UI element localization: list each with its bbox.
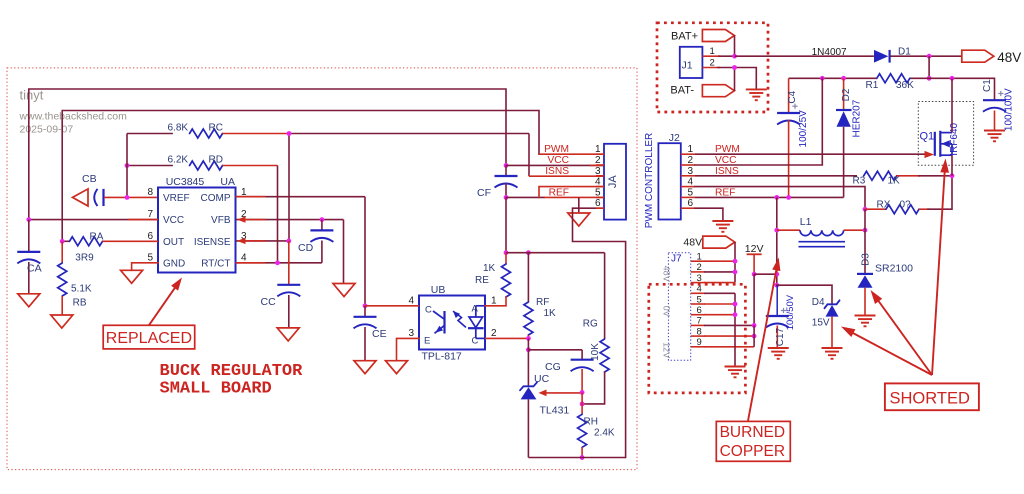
resistor RB 5.1K [61, 241, 63, 263]
svg-text:7: 7 [147, 209, 153, 220]
svg-text:C1: C1 [982, 79, 993, 92]
svg-text:RG: RG [583, 319, 598, 330]
wire 12V to J7 [753, 274, 755, 325]
node RX left junction [863, 207, 868, 212]
svg-text:2: 2 [688, 155, 694, 166]
svg-text:3: 3 [408, 328, 414, 339]
UB light arrow [454, 312, 466, 328]
optocoupler UB TPL-817 [419, 296, 485, 350]
wire JA pin4 to REF [539, 187, 604, 198]
diode D1 1N4007 [874, 50, 888, 63]
diode D2 HER207 [843, 78, 845, 110]
svg-text:15V: 15V [812, 318, 830, 329]
ground J1 [746, 88, 767, 90]
wire RX to L1/D3 [864, 209, 866, 230]
wire J1 pin1 [702, 55, 720, 57]
wire JA pin6 path [573, 208, 626, 457]
wire 48V to rail [928, 56, 930, 78]
wire RC to JA ISNS [289, 133, 529, 135]
wire PWM to Q1 gate [695, 153, 925, 155]
node J1 pin2 junction [732, 65, 737, 70]
capacitor C4 100/25V [788, 78, 790, 113]
node RG-RH junction [580, 402, 585, 407]
svg-text:REPLACED: REPLACED [106, 330, 192, 347]
node 12V junction [752, 272, 757, 277]
svg-text:VREF: VREF [163, 193, 190, 204]
wire 12V to pin9 [753, 325, 755, 346]
node 12V-net junction [774, 272, 779, 277]
UB transistor side [433, 311, 444, 319]
svg-text:5: 5 [688, 187, 694, 198]
zener diode D4 15V [825, 300, 840, 308]
wire Q1 drain to rail [951, 78, 953, 132]
svg-text:VFB: VFB [211, 215, 231, 226]
svg-text:4: 4 [241, 252, 247, 263]
svg-text:3R9: 3R9 [75, 253, 94, 264]
node J7 pin2 junction [733, 270, 738, 275]
svg-text:1N4007: 1N4007 [812, 47, 847, 58]
wire 48V flag to J7 pins [734, 242, 736, 283]
wire feedback rail [506, 252, 605, 254]
wire 12V row [754, 273, 777, 275]
svg-text:RX: RX [877, 200, 891, 211]
resistor RF 1K [527, 253, 529, 302]
wire UB pin3 to ground [397, 338, 420, 360]
annotation SHORTED arrow to D3 [879, 301, 933, 375]
transistor Q1 IRF640 dotted box [918, 102, 973, 166]
svg-text:D4: D4 [812, 297, 825, 308]
svg-text:3: 3 [688, 166, 694, 177]
svg-text:6.2K: 6.2K [168, 155, 189, 166]
flag BAT+ [702, 30, 734, 42]
annotation REPLACED box [103, 325, 195, 349]
svg-text:BUCK REGULATOR: BUCK REGULATOR [160, 362, 304, 381]
svg-text:RE: RE [475, 275, 489, 286]
svg-text:CE: CE [372, 328, 387, 340]
wire RD to RT/CT [277, 166, 279, 263]
capacitor CA [28, 220, 30, 252]
ground RB [51, 315, 73, 328]
ground UB pin3 [386, 361, 408, 374]
node rail-VCC junction [820, 76, 825, 81]
svg-text:VCC: VCC [547, 155, 569, 166]
ground J7 [725, 366, 746, 368]
capacitor CB [73, 189, 89, 206]
resistor RD 6.2K [127, 165, 173, 167]
resistor RC 6.8K [127, 133, 173, 135]
svg-text:RC: RC [209, 123, 223, 134]
connector J1 dotted box [657, 23, 768, 112]
svg-text:12V: 12V [661, 342, 671, 358]
svg-text:J1: J1 [682, 60, 693, 72]
node C17 junction [774, 283, 779, 288]
connector J7 dotted box [668, 253, 690, 360]
node J7 pin5 junction [733, 302, 738, 307]
node REF-C4 junction [786, 195, 791, 200]
node REF junction at CF [504, 195, 509, 200]
node VREF junction [125, 195, 130, 200]
svg-text:CB: CB [82, 173, 97, 185]
node RT/CT junction [275, 260, 280, 265]
node J7 pin1 junction [733, 259, 738, 264]
node J7 pin7 junction [752, 323, 757, 328]
resistor R3 1K [864, 171, 897, 180]
capacitor C17 100/50V [776, 285, 778, 316]
ground CE [354, 361, 376, 374]
capacitor CD [321, 220, 323, 231]
svg-text:RD: RD [209, 155, 223, 166]
annotation SHORTED arrow to Q1 [932, 170, 945, 375]
connector JA [604, 144, 626, 220]
ground D4 [822, 347, 843, 349]
svg-text:5.1K: 5.1K [71, 284, 92, 295]
svg-text:CF: CF [477, 187, 491, 199]
capacitor CE [364, 306, 366, 317]
wire JA pin1 stub [539, 153, 604, 155]
IC UA UC3845 PWM controller [158, 188, 236, 273]
svg-text:GND: GND [163, 258, 185, 269]
svg-text:48V: 48V [683, 237, 702, 249]
resistor R1 36K [877, 74, 910, 83]
ground C17 [768, 347, 789, 349]
svg-text:1K: 1K [888, 176, 901, 187]
svg-text:CA: CA [27, 263, 42, 275]
svg-text:RH: RH [584, 417, 598, 428]
J7 lower dotted box [649, 284, 746, 393]
svg-text:SHORTED: SHORTED [890, 390, 970, 408]
wire J2 pin6 to ground [695, 208, 723, 220]
svg-text:12V: 12V [745, 243, 764, 255]
svg-text:1K: 1K [483, 263, 496, 274]
svg-text:100/50V: 100/50V [785, 294, 796, 330]
node VCC-CA junction [26, 217, 31, 222]
node REF-12V junction [774, 195, 779, 200]
wire VFB row [236, 219, 344, 221]
svg-text:48V: 48V [997, 50, 1021, 65]
svg-text:C4: C4 [787, 90, 798, 103]
svg-text:VCC: VCC [163, 215, 184, 226]
wire COMP to optocoupler [236, 196, 366, 198]
wire J1 pin2 [702, 67, 720, 69]
wire REF row [695, 196, 844, 198]
svg-text:CD: CD [298, 242, 314, 254]
svg-text:R3: R3 [853, 176, 866, 187]
svg-text:C: C [425, 305, 432, 316]
connector J1 [680, 47, 703, 78]
wire BAT+ to pin1 [734, 36, 736, 57]
annotation REPLACED arrow [149, 281, 180, 325]
svg-text:UB: UB [431, 284, 446, 296]
svg-text:2: 2 [710, 58, 715, 69]
ground CA [18, 294, 40, 307]
node L1 left junction [774, 228, 779, 233]
wire RT/CT row [236, 262, 322, 264]
ground VFB [333, 284, 355, 297]
wire UB pin4 [365, 305, 419, 307]
node RD junction [125, 163, 130, 168]
connector J2 [658, 143, 680, 219]
wire battery to D1 [735, 55, 874, 57]
TL431 ref arrow [539, 390, 547, 397]
flag 48V output [962, 50, 994, 62]
svg-text:UA: UA [220, 176, 235, 188]
svg-text:C: C [472, 336, 479, 347]
resistor RA 3R9 [62, 240, 69, 242]
svg-text:48V: 48V [661, 266, 671, 282]
wire VCC to rail [695, 78, 822, 165]
svg-text:100/100V: 100/100V [1004, 88, 1015, 131]
svg-text:BAT+: BAT+ [671, 31, 698, 43]
node RE junction [504, 250, 509, 255]
svg-text:2025-09-07: 2025-09-07 [20, 124, 74, 136]
wire VREF vertical [126, 134, 128, 198]
svg-text:4: 4 [408, 296, 414, 307]
svg-text:JA: JA [607, 175, 619, 189]
node CG junction [526, 347, 531, 352]
resistor RX 0? [865, 208, 886, 210]
svg-text:HER207: HER207 [852, 99, 863, 137]
wire D1 to 48V flag [891, 55, 962, 57]
svg-text:RA: RA [90, 232, 104, 243]
svg-text:TPL-817: TPL-817 [422, 351, 462, 363]
resistor RG 10K [604, 253, 606, 339]
wire RC to ISENSE vertical [288, 134, 290, 241]
svg-text:PWM CONTROLLER: PWM CONTROLLER [644, 133, 655, 229]
svg-text:CC: CC [261, 296, 277, 308]
ground UC3845 GND [121, 270, 143, 283]
svg-text:BURNED: BURNED [720, 424, 785, 441]
annotation BURNED COPPER box [716, 421, 790, 461]
svg-text:COMP: COMP [201, 193, 231, 204]
node RF junction [526, 250, 531, 255]
wire BAT- to pin2 [734, 68, 736, 91]
svg-text:BAT-: BAT- [670, 84, 694, 96]
annotation BURNED COPPER arrow [748, 270, 776, 421]
svg-text:2.4K: 2.4K [594, 428, 615, 439]
node Q1 source junction [950, 173, 955, 178]
svg-text:J2: J2 [669, 132, 680, 144]
ground C1 [984, 130, 1005, 132]
wire 48V rail [789, 77, 877, 79]
svg-text:UC3845: UC3845 [166, 176, 205, 188]
svg-text:36K: 36K [896, 80, 914, 91]
svg-text:4: 4 [688, 177, 694, 188]
ground J2 pin6 [712, 220, 733, 222]
svg-text:1: 1 [710, 46, 715, 57]
wire ISENSE row [236, 240, 289, 242]
svg-text:6.8K: 6.8K [168, 123, 189, 134]
svg-text:J7: J7 [671, 253, 682, 264]
wire J2 pin4 to RX [695, 187, 865, 210]
flag 48V J7 [703, 236, 735, 248]
wire CG branch [528, 349, 582, 351]
capacitor CC [288, 241, 290, 285]
resistor RE 1K [505, 253, 507, 264]
node L1 right junction [863, 228, 868, 233]
node rail-D2 junction [841, 76, 846, 81]
wire COMP junction to CE [363, 303, 368, 308]
wire REF row to JA [506, 196, 545, 198]
svg-text:1K: 1K [544, 308, 557, 319]
svg-text:D3: D3 [861, 253, 872, 266]
svg-text:www.thebackshed.com: www.thebackshed.com [19, 111, 128, 123]
svg-text:CG: CG [545, 361, 561, 373]
svg-text:2: 2 [491, 328, 497, 339]
annotation SHORTED box [885, 383, 979, 410]
left board dotted border [7, 68, 637, 470]
node J1 pin1 junction [732, 54, 737, 59]
svg-text:IRF640: IRF640 [949, 122, 960, 155]
wire to D4 [777, 285, 832, 303]
annotation SHORTED arrow to D4 [851, 332, 932, 375]
wire RF to TL431 [527, 338, 529, 385]
wire VCC junction at CF [504, 163, 509, 168]
wire UB pin2 to RF [485, 337, 528, 339]
ground D3 [855, 315, 876, 317]
svg-text:6: 6 [688, 198, 694, 209]
node RA-RB junction [60, 239, 65, 244]
svg-text:R1: R1 [866, 80, 879, 91]
node RF bottom junction [526, 336, 531, 341]
wire ISNS to R3 [695, 175, 857, 177]
svg-text:SMALL BOARD: SMALL BOARD [160, 380, 272, 399]
svg-text:L1: L1 [800, 216, 812, 228]
svg-text:6: 6 [147, 231, 153, 242]
flag BAT- [702, 85, 734, 97]
svg-text:1: 1 [491, 296, 497, 307]
svg-text:RF: RF [536, 297, 549, 308]
wire CF to RE/RF rail [505, 197, 507, 252]
wire VCC top long run [29, 89, 506, 220]
node RC junction [287, 131, 292, 136]
svg-text:0?: 0? [900, 200, 912, 211]
ground CC [277, 328, 299, 341]
ground REF [578, 197, 580, 213]
wire J7 ground pins [734, 293, 736, 366]
svg-text:SR2100: SR2100 [875, 263, 913, 275]
svg-text:Q1: Q1 [920, 131, 935, 143]
wire PWM top long run [62, 111, 539, 242]
node VFB-CD junction [320, 217, 325, 222]
wire GND pin5 [132, 263, 158, 271]
svg-text:8: 8 [147, 187, 153, 198]
capacitor CF [505, 165, 507, 176]
svg-text:ISNS: ISNS [545, 166, 569, 177]
UB led side [476, 305, 485, 307]
node RH bottom junction [580, 455, 585, 460]
diode D3 SR2100 [864, 230, 866, 274]
node rail-Q1 junction [950, 76, 955, 81]
svg-text:A: A [472, 304, 479, 315]
capacitor C1 100/100V [994, 78, 996, 100]
svg-text:5: 5 [147, 252, 153, 263]
wire Q1 source [951, 155, 953, 176]
svg-text:OUT: OUT [163, 237, 184, 248]
svg-text:E: E [424, 336, 430, 347]
svg-text:D2: D2 [841, 88, 852, 101]
svg-text:REF: REF [549, 187, 569, 198]
svg-text:RT/CT: RT/CT [201, 258, 230, 269]
node J7 pin8 junction [752, 334, 757, 339]
wire TL431 anode rail [527, 399, 529, 457]
svg-text:TL431: TL431 [540, 405, 570, 417]
node J7 pin6 junction [733, 312, 738, 317]
node 48V junction [927, 54, 932, 59]
svg-text:10K: 10K [590, 343, 601, 361]
svg-text:0V: 0V [661, 306, 671, 317]
wire VFB to ground [343, 220, 345, 284]
svg-text:100/25V: 100/25V [798, 110, 809, 148]
svg-text:1: 1 [688, 144, 694, 155]
wire VCC rail pin7 [29, 219, 158, 221]
node rail-D1 junction [927, 76, 932, 81]
node ISENSE-CC junction [286, 239, 291, 244]
wire 12V net vertical [776, 197, 778, 285]
resistor RH 2.4K [581, 404, 583, 414]
svg-text:ISENSE: ISENSE [194, 237, 231, 248]
node TL431 ref junction [580, 390, 585, 395]
svg-text:RB: RB [73, 298, 87, 309]
svg-text:COPPER: COPPER [720, 443, 785, 460]
capacitor CG [581, 350, 583, 360]
